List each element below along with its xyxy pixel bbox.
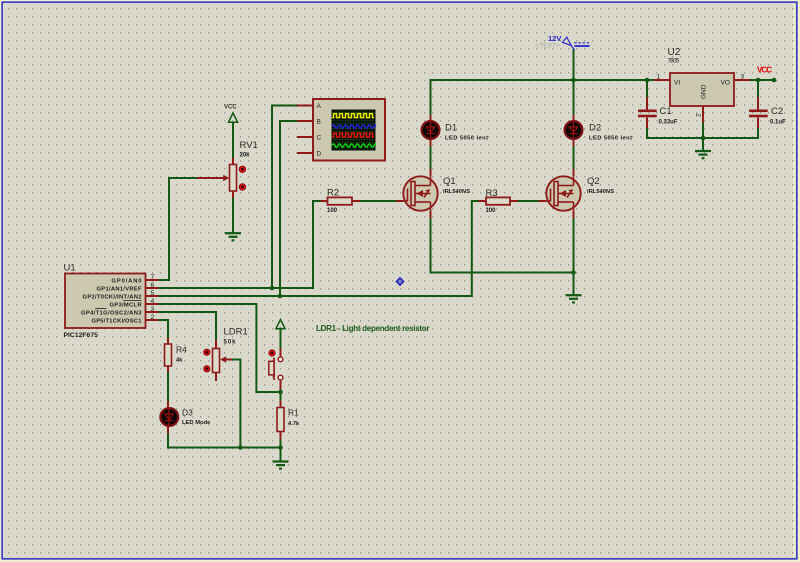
svg-text:100: 100: [327, 208, 338, 214]
svg-text:RV1: RV1: [240, 140, 258, 151]
wire C1 bottom to bottom bus: [646, 128, 648, 138]
svg-text:2: 2: [696, 113, 703, 117]
svg-text:VO: VO: [721, 80, 730, 87]
U1 T1G overline: [95, 307, 106, 309]
RV1 bottom pin: [232, 191, 234, 198]
node C1 on bus: [645, 78, 650, 83]
scope pin stubs: [297, 106, 313, 154]
svg-text:50k: 50k: [224, 340, 237, 346]
svg-text:D: D: [317, 151, 322, 158]
svg-text:D3: D3: [182, 408, 193, 418]
scope trace blue sine: [332, 125, 376, 128]
wire button VCC arrow lead: [280, 329, 282, 349]
wire scope B to GP2 net: [280, 121, 297, 296]
origin marker blue diamond: [395, 277, 404, 286]
LED D3: [160, 401, 211, 433]
svg-text:GP0/AN0: GP0/AN0: [112, 279, 142, 285]
scope trace yellow square: [332, 114, 374, 118]
RV1 wiper arrow: [197, 177, 224, 179]
wire pin5 to R3 riser: [159, 201, 479, 296]
svg-text:0.1uF: 0.1uF: [770, 120, 786, 126]
svg-text:20k: 20k: [240, 153, 251, 159]
wire pin3 to LDR1 top: [159, 312, 217, 340]
node 12V on bus: [571, 78, 576, 83]
LDR1 pin marker dots: [204, 349, 210, 355]
node LDR wiper on bottom net: [238, 445, 243, 450]
svg-text:GND: GND: [701, 84, 708, 99]
wire bottom bus C1 to C2: [647, 137, 758, 139]
wire U2 VO to VCC node: [750, 79, 774, 81]
LDR1 potentiometer: [204, 327, 248, 382]
svg-text:PIC12F675: PIC12F675: [64, 332, 99, 339]
button pin marker dot: [269, 350, 275, 356]
wire scope A to GP1 net: [272, 106, 297, 289]
resistor R2: [321, 188, 361, 215]
node button bottom / R1 top: [278, 390, 283, 395]
resistor R1: [277, 401, 300, 440]
potentiometer RV1: [197, 140, 258, 198]
wire 12V terminal drop: [573, 50, 575, 80]
svg-text:7805: 7805: [668, 58, 680, 65]
wire D1 to Q1 drain: [430, 146, 432, 169]
U1 pin stubs: [146, 280, 159, 320]
svg-text:1: 1: [657, 74, 661, 81]
svg-text:IRL540NS: IRL540NS: [587, 189, 614, 195]
svg-text:R4: R4: [176, 345, 187, 355]
button pole: [273, 358, 275, 381]
svg-text:D2: D2: [589, 123, 601, 134]
node bottom bus gnd: [701, 136, 706, 141]
power VCC arrow above RV1: [224, 105, 238, 123]
resistor R3: [479, 188, 519, 214]
wire C2 top: [757, 80, 759, 97]
ground under Q2 source node: [566, 295, 582, 302]
node scope A on pin6 wire: [270, 286, 275, 291]
svg-text:R3: R3: [486, 188, 498, 199]
svg-text:R2: R2: [327, 188, 339, 199]
RV1 top pin: [232, 158, 234, 165]
wire RV1 bottom to ground: [232, 198, 234, 232]
capacitor C2: [749, 97, 786, 128]
LED D1: [422, 115, 488, 146]
U1 pin names: [81, 279, 142, 325]
wire pin4 to button bottom node: [159, 304, 281, 392]
node VCC: [756, 78, 761, 83]
svg-text:VCC: VCC: [224, 105, 237, 111]
wire button bottom to node: [280, 389, 282, 401]
svg-text:LED 5050 lent: LED 5050 lent: [445, 136, 488, 142]
svg-text:C2: C2: [771, 106, 783, 117]
wire U2 gnd pin to bottom bus: [702, 123, 704, 139]
wire D2 drop from bus: [573, 80, 575, 115]
wire Q2 source to common node: [573, 218, 575, 273]
ground under RV1: [225, 233, 241, 240]
wire D3 bottom to bottom net: [168, 433, 281, 448]
svg-text:GP5/T1CKI/OSC1: GP5/T1CKI/OSC1: [92, 319, 143, 325]
wire R2 to Q1 gate: [360, 200, 396, 202]
U1 pin numbers: [151, 274, 155, 321]
LED D2: [565, 115, 632, 146]
svg-text:100: 100: [486, 208, 497, 214]
MOSFET Q1: [396, 169, 470, 218]
power terminal 12V: [536, 34, 591, 50]
U2 pin stubs: [654, 79, 670, 81]
svg-text:B: B: [317, 119, 321, 126]
wire R3 to Q2 gate: [518, 200, 539, 202]
svg-text:C: C: [317, 135, 322, 142]
svg-text:LED 5050 lent: LED 5050 lent: [589, 136, 632, 142]
push button: [269, 349, 283, 390]
wire main 12V bus y=80: [431, 79, 655, 81]
svg-text:R1: R1: [288, 408, 299, 418]
svg-text:0.33uF: 0.33uF: [659, 120, 678, 126]
wire pin2 to R4 top: [159, 320, 169, 338]
svg-text:A: A: [317, 103, 322, 110]
wire C2 bottom to bottom bus: [757, 128, 759, 138]
svg-text:GP3/MCLR: GP3/MCLR: [110, 303, 143, 309]
svg-text:VCC: VCC: [757, 66, 772, 75]
button actuator: [269, 361, 274, 375]
resistor R4: [165, 338, 188, 372]
power arrow above button: [276, 320, 285, 329]
svg-text:3: 3: [151, 306, 155, 313]
svg-text:LED Mode: LED Mode: [182, 420, 211, 426]
svg-text:4: 4: [151, 298, 155, 305]
svg-text:5: 5: [151, 290, 155, 297]
svg-text:3: 3: [741, 74, 745, 81]
svg-text:Q1: Q1: [443, 176, 456, 187]
wire common node to ground: [573, 273, 575, 295]
svg-text:LDR1: LDR1: [224, 327, 248, 338]
scope screen: [332, 110, 376, 151]
svg-text:GP4/T1G/OSC2/AN3: GP4/T1G/OSC2/AN3: [81, 311, 142, 317]
wire VCC arrow to RV1 top: [232, 123, 234, 159]
wire D1 drop from bus: [430, 80, 432, 115]
svg-text:2: 2: [151, 314, 155, 321]
scope channel labels: [317, 103, 322, 158]
svg-text:C1: C1: [660, 106, 672, 117]
svg-text:GP2/T0CKI/INT/AN2: GP2/T0CKI/INT/AN2: [83, 295, 142, 301]
ground under U2: [695, 138, 711, 158]
scope trace green sine: [332, 144, 376, 147]
wire R1 bottom to bottom net: [280, 440, 282, 461]
svg-text:VI: VI: [674, 80, 680, 87]
wire pin6 to R2 riser: [159, 201, 321, 288]
node VCC end point: [772, 78, 777, 83]
svg-text:IRL540NS: IRL540NS: [443, 189, 470, 195]
node Q sources common: [571, 270, 576, 275]
IC U1 PIC12F675: [64, 263, 159, 340]
LDR1 wiper arrow: [226, 359, 232, 361]
wire D2 to Q2 drain: [573, 146, 575, 169]
svg-text:Q2: Q2: [587, 176, 600, 187]
wire LDR1 wiper to bottom net: [226, 360, 240, 448]
svg-text:7: 7: [151, 274, 155, 281]
svg-text:4.7k: 4.7k: [288, 421, 300, 427]
svg-text:U2: U2: [668, 47, 681, 58]
svg-text:GP1/AN1/VREF: GP1/AN1/VREF: [97, 287, 142, 293]
capacitor C1: [638, 97, 678, 128]
node scope B on pin5 wire: [278, 294, 283, 299]
wire Q1 source to common node: [431, 218, 574, 273]
svg-text:U1: U1: [64, 263, 76, 274]
ground under R1: [273, 462, 289, 469]
svg-text:LDR1 - Light dependent resisto: LDR1 - Light dependent resistor: [316, 324, 430, 333]
wire bus to C1: [646, 80, 648, 97]
svg-text:D1: D1: [445, 123, 457, 134]
wire R4 bottom to D3: [167, 372, 169, 401]
svg-text:<TEXT>: <TEXT>: [536, 43, 560, 50]
svg-text:4k: 4k: [176, 358, 183, 364]
wire pin7 to riser: [159, 279, 170, 281]
oscilloscope: [297, 99, 385, 161]
MOSFET Q2: [539, 169, 615, 218]
regulator U2 7805: [654, 47, 750, 123]
U1 MCLR overline: [123, 299, 142, 301]
RV1 pin marker dots: [239, 166, 246, 173]
scope trace red square: [332, 133, 374, 137]
svg-text:6: 6: [151, 282, 155, 289]
wire RV1 wiper to pin7 riser: [169, 178, 197, 280]
node R1 bottom on bottom net: [278, 445, 283, 450]
